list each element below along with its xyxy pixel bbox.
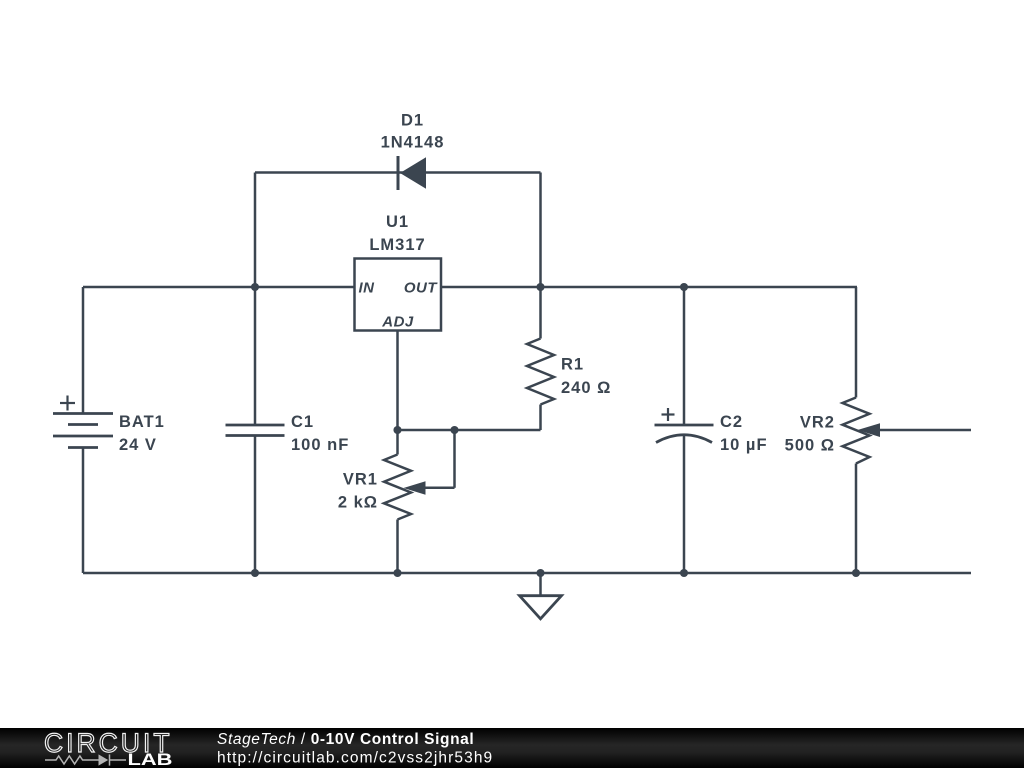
node ground junction: [536, 569, 544, 577]
svg-text:100 nF: 100 nF: [291, 436, 349, 454]
node C2 bottom rail: [680, 569, 688, 577]
node C1 bottom rail: [251, 569, 259, 577]
capacitor C2 (polarized): [655, 425, 714, 443]
battery BAT1 plus sign: [60, 396, 75, 411]
node ADJ/VR1: [393, 426, 401, 434]
ground: [520, 596, 562, 619]
svg-text:240 Ω: 240 Ω: [561, 379, 611, 397]
svg-text:IN: IN: [359, 280, 376, 297]
op-amp U1 LM317 regulator box: [355, 259, 442, 331]
footer logo squiggle resistor and diode: [45, 754, 126, 765]
node C1/D1 top rail: [251, 283, 259, 291]
wire bottom ground rail: [83, 572, 971, 575]
wire C2 column bottom: [683, 435, 686, 574]
svg-text:LM317: LM317: [369, 236, 425, 254]
node junction dots: [251, 283, 860, 577]
svg-text:ADJ: ADJ: [381, 314, 414, 331]
svg-text:VR1: VR1: [343, 471, 378, 489]
svg-text:VR2: VR2: [800, 414, 835, 432]
node VR1 bottom rail: [393, 569, 401, 577]
wire VR2 bottom lead: [855, 464, 858, 574]
wire VR2 drop: [855, 287, 858, 398]
potentiometer VR2: [843, 398, 881, 464]
wire VR1 top lead: [396, 430, 399, 455]
svg-text:BAT1: BAT1: [119, 413, 165, 431]
wire C1 column bottom: [254, 436, 257, 574]
node VR1 wiper: [450, 426, 458, 434]
svg-text:C1: C1: [291, 413, 314, 431]
diode D1: [398, 156, 426, 190]
wire ADJ node horizontal: [398, 429, 541, 432]
wire C2 column top: [683, 287, 686, 425]
wire ADJ riser: [396, 331, 399, 431]
wire battery column bottom: [82, 448, 85, 574]
wire R1 top lead: [539, 287, 542, 339]
wire top D1 branch horizontal: [255, 171, 541, 174]
node D1/R1 top rail: [536, 283, 544, 291]
svg-text:OUT: OUT: [404, 280, 439, 297]
node C2 top rail: [680, 283, 688, 291]
wire C1 column top: [254, 287, 257, 425]
capacitor C1: [226, 425, 285, 436]
wire main horizontal rail: [83, 286, 857, 289]
svg-text:2 kΩ: 2 kΩ: [338, 494, 378, 512]
svg-text:24 V: 24 V: [119, 436, 157, 454]
wire VR1 wiper vertical: [453, 430, 456, 488]
svg-text:R1: R1: [561, 356, 584, 374]
svg-text:http://circuitlab.com/c2vss2jh: http://circuitlab.com/c2vss2jhr53h9: [217, 750, 493, 767]
wire battery column top: [82, 287, 85, 414]
potentiometer VR1: [384, 455, 426, 520]
wire R1 bottom lead: [539, 405, 542, 431]
node VR2 bottom rail: [852, 569, 860, 577]
svg-text:1N4148: 1N4148: [381, 134, 445, 152]
svg-text:StageTech / 0-10V Control Sign: StageTech / 0-10V Control Signal: [217, 731, 474, 748]
wire VR1 wiper horizontal: [424, 487, 455, 490]
svg-text:U1: U1: [386, 213, 409, 231]
svg-text:LAB: LAB: [128, 750, 173, 768]
wire VR1 bottom lead: [396, 520, 399, 574]
svg-text:C2: C2: [720, 413, 743, 431]
wire D1 left riser: [254, 173, 257, 288]
footer bar: [0, 728, 1024, 768]
svg-text:10 µF: 10 µF: [720, 436, 768, 454]
resistor R1: [527, 339, 554, 405]
battery BAT1: [53, 414, 113, 448]
wire D1 right riser: [539, 173, 542, 288]
wire ground stem: [539, 573, 542, 596]
svg-text:500 Ω: 500 Ω: [785, 437, 835, 455]
wire VR2 wiper horizontal: [878, 429, 971, 432]
svg-text:D1: D1: [401, 112, 424, 130]
capacitor C2 plus sign: [662, 408, 675, 421]
